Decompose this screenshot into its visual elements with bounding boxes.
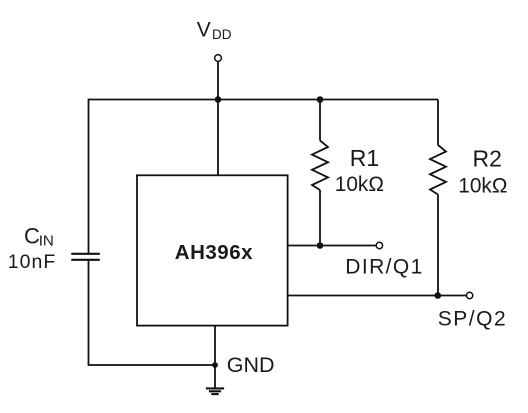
svg-text:R2: R2 xyxy=(473,145,502,171)
svg-text:DIR/Q1: DIR/Q1 xyxy=(345,255,423,278)
svg-text:C: C xyxy=(24,224,40,249)
svg-text:10kΩ: 10kΩ xyxy=(335,173,384,196)
svg-text:R1: R1 xyxy=(350,145,379,171)
svg-text:SP/Q2: SP/Q2 xyxy=(438,308,507,331)
svg-text:DD: DD xyxy=(212,27,232,42)
svg-text:10nF: 10nF xyxy=(8,251,56,273)
svg-text:V: V xyxy=(197,19,211,42)
svg-text:AH396x: AH396x xyxy=(175,241,253,264)
svg-text:IN: IN xyxy=(39,233,54,250)
svg-text:GND: GND xyxy=(227,353,275,377)
svg-text:10kΩ: 10kΩ xyxy=(458,174,507,197)
